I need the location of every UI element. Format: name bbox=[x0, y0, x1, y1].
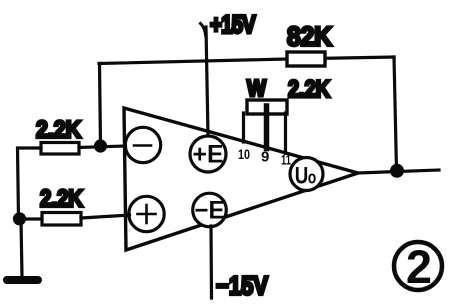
wire 2.2K top-left to inverting input bbox=[79, 146, 126, 148]
output Uo circle bbox=[290, 158, 323, 191]
svg-text:2.2K: 2.2K bbox=[36, 117, 82, 144]
resistor 2.2K bottom-left body bbox=[42, 213, 81, 226]
svg-text:10: 10 bbox=[238, 146, 250, 162]
junction node at left resistors bbox=[13, 212, 26, 225]
inverting input circle (-) bbox=[125, 127, 160, 162]
non-inverting input circle (+) bbox=[129, 196, 164, 231]
wire node to ground bbox=[21, 219, 22, 277]
svg-text:+15V: +15V bbox=[210, 11, 256, 39]
svg-text:2.2K: 2.2K bbox=[40, 186, 84, 213]
wire feedback left vertical bbox=[100, 64, 101, 147]
wire +15V supply vertical bbox=[206, 27, 208, 136]
-E supply pin circle bbox=[193, 193, 227, 227]
circled figure number 2 bbox=[394, 242, 442, 290]
wire from 2.2K top-left to node bbox=[18, 148, 42, 219]
wire node to 2.2K bottom-left bbox=[20, 217, 42, 220]
arrow +15V terminal bbox=[201, 24, 206, 37]
wire pot left leg to pin 10 bbox=[242, 113, 245, 142]
wire pot wiper to pin 9 bbox=[264, 106, 270, 149]
junction node at inverting input bbox=[94, 139, 107, 152]
wire top feedback horizontal bbox=[99, 57, 394, 64]
svg-text:U: U bbox=[295, 163, 309, 190]
wire pot right leg to pin 11 bbox=[284, 113, 287, 154]
svg-text:−15V: −15V bbox=[216, 271, 269, 301]
+E supply pin circle bbox=[190, 136, 226, 172]
wire output bbox=[358, 170, 439, 173]
svg-text:o: o bbox=[308, 168, 317, 188]
svg-text:+E: +E bbox=[193, 141, 224, 169]
ground bbox=[7, 276, 38, 284]
svg-text:11: 11 bbox=[281, 152, 291, 168]
wire -E to -15V supply bbox=[209, 226, 213, 298]
op-amp triangle bbox=[124, 108, 358, 250]
svg-text:2.2K: 2.2K bbox=[288, 76, 331, 103]
wire feedback right vertical bbox=[394, 57, 397, 171]
potentiometer W body bbox=[247, 100, 287, 114]
svg-text:W: W bbox=[247, 75, 266, 101]
svg-text:2: 2 bbox=[406, 240, 432, 293]
junction node at output bbox=[390, 164, 404, 178]
svg-text:82K: 82K bbox=[287, 22, 332, 52]
resistor 2.2K top-left body bbox=[41, 143, 79, 155]
svg-text:−E: −E bbox=[195, 197, 225, 225]
resistor 82K body bbox=[287, 52, 325, 66]
svg-text:9: 9 bbox=[261, 149, 269, 166]
wire 2.2K bottom-left to non-inverting input bbox=[81, 215, 130, 218]
